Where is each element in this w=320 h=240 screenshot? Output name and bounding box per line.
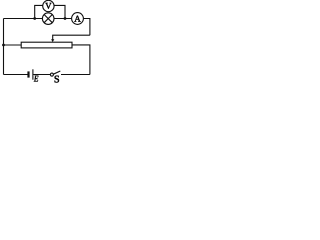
node dot2	[64, 17, 67, 20]
voltmeter U1	[43, 0, 54, 11]
node dot3	[2, 44, 5, 47]
wire bottom right segment	[61, 74, 90, 76]
lamp L1	[42, 13, 54, 25]
wire rheostat right terminal down	[72, 45, 90, 75]
wire lamp to ammeter	[54, 18, 71, 20]
wire top-left horizontal	[4, 18, 43, 20]
switch S1 pivot	[50, 73, 53, 76]
battery label E	[34, 76, 39, 82]
wire left vertical	[3, 19, 5, 75]
wire to slider	[53, 35, 90, 39]
wire ammeter right and down	[84, 19, 90, 36]
slider arrow	[51, 39, 54, 42]
battery E1 long plate	[32, 69, 34, 79]
node dot1	[33, 17, 36, 20]
ammeter A1	[72, 13, 84, 25]
switch label S	[55, 76, 59, 83]
wire riser to voltmeter	[35, 5, 43, 18]
rheostat R1	[21, 42, 72, 48]
wire battery to switch	[33, 74, 50, 76]
wire rheostat left feed	[4, 44, 22, 46]
wire bottom left segment to battery	[4, 74, 28, 76]
switch S1 lever	[53, 71, 60, 74]
battery E1 short plate	[27, 71, 29, 77]
wire voltmeter right down to node B	[54, 5, 65, 18]
